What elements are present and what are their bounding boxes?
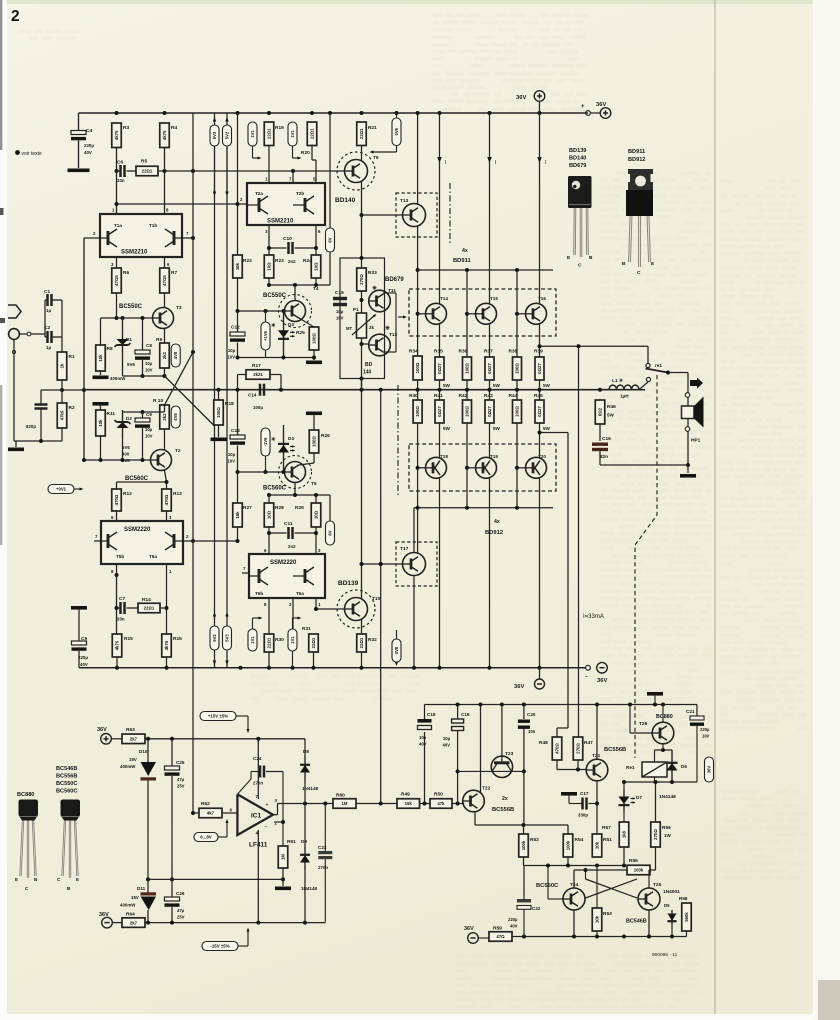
transistor T21 BC556B [586,759,608,781]
svg-text:R35: R35 [434,349,443,355]
svg-text:R29: R29 [295,505,304,511]
svg-text:+: + [266,803,269,809]
svg-text:BD911: BD911 [453,258,472,264]
svg-text:2k: 2k [369,325,374,330]
node 1V1 d [288,629,297,651]
svg-text:270Ω: 270Ω [576,743,581,754]
resistor R29 [315,495,317,503]
node 0V6 top [395,111,399,115]
svg-text:100p: 100p [253,405,263,410]
pin 7 [182,237,193,239]
svg-text:47µ: 47µ [177,777,185,782]
resistor R62 [199,808,222,818]
svg-text:C26: C26 [176,891,185,896]
wire top rail relay section [425,704,698,706]
resistor R15 [112,634,122,657]
resistor R17 bridge [237,375,239,390]
svg-text:140: 140 [363,370,372,376]
wire C18 to divider [424,732,426,804]
svg-text:SSM2220: SSM2220 [124,527,151,533]
svg-text:R9: R9 [156,337,162,343]
capacitor C16 [592,443,608,446]
wire T5 collector node [294,483,296,496]
svg-text:400mW: 400mW [120,764,136,769]
wire rail b [226,113,228,668]
pin 3 [116,257,118,268]
svg-text:16k: 16k [235,262,240,270]
capacitor C4 [78,113,80,131]
pin 6 [164,257,166,268]
svg-text:10k: 10k [595,915,600,923]
wire T26 emitter [662,744,664,750]
wire feedback riser [380,564,382,804]
wire collector rail 3 [538,111,542,115]
svg-text:D6: D6 [681,764,687,769]
capacitor C24 [237,779,251,794]
svg-text:✳: ✳ [385,325,390,332]
svg-text:R20: R20 [301,150,310,156]
wire collector rail 1 [438,111,442,115]
resistor R58 [682,903,692,931]
svg-text:5W: 5W [543,383,551,388]
svg-text:22Ω1: 22Ω1 [142,169,153,174]
svg-text:C18: C18 [427,712,436,717]
svg-text:6Ω2: 6Ω2 [598,407,603,416]
pin 8 [268,598,270,634]
LED D4 [283,425,285,472]
capacitor C10 [269,247,287,249]
svg-text:C23: C23 [318,845,327,850]
svg-text:10Ω: 10Ω [314,262,319,271]
wire T22 emitter [480,705,482,794]
op-amp pair IC SSM2220 T6 [249,554,325,598]
svg-text:BC560C: BC560C [56,789,77,795]
svg-text:270Ω: 270Ω [359,274,364,285]
wire T13 emitter [417,226,419,270]
resistor R12 [112,489,122,511]
svg-text:L1 ✳: L1 ✳ [612,378,624,384]
wire pin1 node [116,171,118,214]
transistor T16 [526,303,547,324]
wire L1 to relay contact [639,382,648,390]
svg-text:R27: R27 [243,505,252,511]
resistor R40 [413,400,422,423]
svg-text:2n2: 2n2 [288,544,296,549]
svg-text:4V8: 4V8 [173,413,178,421]
svg-text:0Ω27: 0Ω27 [537,406,542,417]
ground top relay [647,692,663,696]
svg-text:R5: R5 [141,159,147,165]
resistor R32 [361,620,363,634]
svg-text:T20: T20 [538,454,546,459]
capacitor C2 [45,336,48,338]
wire T21 emitter [596,781,598,834]
svg-text:R3: R3 [123,125,129,131]
wire crossover upper [165,376,215,426]
node 1V1 c [248,629,257,651]
resistor R27 [237,472,239,503]
boundary dash-dot b [397,385,399,497]
wire crossover lower [165,352,194,405]
svg-text:R4: R4 [171,125,177,131]
svg-text:1V1: 1V1 [250,636,255,644]
svg-text:1N4001: 1N4001 [663,889,680,895]
svg-text:36V: 36V [97,727,107,733]
svg-text:10V: 10V [336,316,344,321]
svg-text:+15V ±5%: +15V ±5% [208,714,228,719]
svg-text:0Ω27: 0Ω27 [437,363,442,374]
svg-text:R37: R37 [484,349,493,355]
ground above C17 [561,792,577,796]
wire lower emitters [439,390,441,400]
pin 2 [238,203,248,205]
svg-text:5W: 5W [607,413,615,418]
svg-text:22Ω1: 22Ω1 [144,606,155,611]
svg-text:T26: T26 [639,721,648,727]
resistor R16 [166,608,168,634]
terminal + open [586,111,591,116]
svg-text:SSM2210: SSM2210 [267,219,294,225]
svg-text:R61: R61 [287,839,296,845]
svg-text:400mW: 400mW [120,903,136,908]
resistor R13 [162,489,172,511]
resistor R10 [160,405,170,429]
svg-text:36V: 36V [707,766,712,774]
svg-text:T16: T16 [538,296,546,301]
svg-text:MT: MT [346,326,352,331]
svg-text:47Ω5: 47Ω5 [162,275,167,286]
svg-text:D7: D7 [636,795,642,800]
wire T10 emitter up [361,379,363,599]
svg-text:6...8V: 6...8V [200,835,212,840]
wire lower collectors [439,478,441,668]
resistor R36 [463,357,472,380]
ground input [8,448,24,452]
svg-text:2k2: 2k2 [162,413,167,421]
svg-text:36V: 36V [597,678,607,684]
svg-text:10µ: 10µ [145,427,153,432]
capacitor C23 [324,804,326,852]
svg-text:40V: 40V [84,150,92,155]
wire R4 to pin8 [164,148,166,215]
resistor R23 [264,255,274,278]
svg-text:0Ω27: 0Ω27 [537,363,542,374]
svg-text:+1V6: +1V6 [263,330,268,341]
transistor T17 [396,542,437,586]
svg-text:22Ω1: 22Ω1 [359,128,364,139]
wire lower base rails [389,389,391,391]
svg-text:40V: 40V [510,924,518,929]
wire +15V rail [145,738,305,740]
zener D2 [122,412,124,460]
svg-text:T21: T21 [592,753,601,759]
svg-text:D3: D3 [288,322,294,327]
svg-text:15V: 15V [131,895,139,900]
wire R55 to R56 [655,847,657,870]
pin 8 [116,564,118,575]
resistor R64 [112,922,122,924]
svg-text:470Ω: 470Ω [114,494,119,505]
svg-text:C11: C11 [284,521,293,527]
wire -15V rail [145,922,325,924]
diode D8 [304,739,306,756]
svg-text:5V3: 5V3 [225,634,230,642]
svg-text:R44: R44 [509,393,518,399]
svg-text:4k75: 4k75 [114,130,119,140]
svg-text:R6: R6 [123,270,129,276]
svg-text:T5b: T5b [116,554,124,559]
transistor T25 BC546B [638,888,660,910]
svg-text:5W: 5W [543,426,551,431]
svg-text:10µ: 10µ [336,309,344,314]
flip-flop cross wiring [586,879,638,898]
wire T15 base [466,270,468,357]
svg-text:T2b: T2b [296,191,304,196]
capacitor C15 [333,297,347,300]
wire 6V node lower [329,495,331,521]
svg-text:R2: R2 [69,405,75,411]
svg-text:15k: 15k [405,801,413,806]
svg-text:BD: BD [365,362,373,368]
svg-text:C24: C24 [253,756,262,761]
svg-text:47k: 47k [437,801,445,806]
page fold line [714,0,716,1014]
wire T24 emitter [573,910,575,937]
svg-text:–: – [265,824,268,830]
transistor T22 [463,790,485,812]
svg-text:BD912: BD912 [628,157,645,163]
wire T17 emitter [413,575,415,667]
svg-text:10µ: 10µ [228,348,236,353]
svg-text:10Ω: 10Ω [314,510,319,519]
svg-text:C12: C12 [231,325,240,331]
capacitor C25 [171,739,173,766]
svg-text:re1: re1 [655,363,662,368]
output dashed box upper [409,289,556,336]
svg-text:36V: 36V [516,95,526,101]
svg-text:R8: R8 [107,346,113,352]
svg-text:100Ω: 100Ω [312,333,317,344]
resistor R21 [360,111,364,115]
svg-text:0Ω27: 0Ω27 [437,406,442,417]
svg-text:16k: 16k [235,511,240,519]
svg-text:10k: 10k [595,841,600,849]
svg-text:100Ω: 100Ω [465,406,470,417]
resistor R26 [309,430,319,453]
relay dashed link [635,375,657,758]
svg-text:R41: R41 [434,393,443,399]
svg-text:5W: 5W [443,383,451,388]
svg-text:6V: 6V [328,530,333,535]
svg-text:R17: R17 [252,363,261,369]
svg-text:820p: 820p [26,424,36,429]
svg-text:D11: D11 [137,886,146,891]
boundary dash-dot a [449,183,451,245]
svg-text:100k: 100k [521,840,526,850]
pin 7 [242,572,249,574]
svg-text:T1a: T1a [114,223,122,228]
wire T9 to T13 base [362,214,403,216]
resistor R42 [463,400,472,423]
svg-text:I=33mA: I=33mA [583,614,604,620]
resistor R57 [619,822,629,847]
svg-text:C: C [578,263,582,269]
wire T3 base line [101,317,153,319]
transistor T13 [396,193,437,237]
svg-text:BC546B: BC546B [56,766,77,772]
svg-text:22Ω1: 22Ω1 [311,637,316,648]
svg-text:C20: C20 [527,712,536,717]
svg-text:47µ: 47µ [177,908,185,913]
svg-text:T9: T9 [373,155,379,161]
svg-text:T6a: T6a [296,591,304,596]
svg-text:10k: 10k [98,354,103,362]
capacitor C17 [569,803,582,805]
svg-text:BD679: BD679 [569,163,586,169]
svg-text:1N4148: 1N4148 [659,794,676,800]
svg-text:22Ω1: 22Ω1 [267,128,272,139]
svg-text:1k: 1k [60,363,65,368]
resistor R28 [268,495,270,503]
capacitor C1 [45,299,48,301]
wire T4 base line [238,310,285,312]
package TO-220 [628,169,653,190]
svg-text:T6b: T6b [255,591,263,596]
svg-text:47k5: 47k5 [60,410,65,420]
transistor T2 BC560C [151,450,172,471]
wire T24 base [548,898,563,900]
input arrow symbol [8,305,21,318]
svg-text:25V: 25V [177,915,185,920]
svg-text:4k75: 4k75 [164,640,169,650]
pin 3 [268,225,270,255]
wire T11 T12 right [383,292,396,294]
wire collector rail 2 [488,111,492,115]
node -36V bottom bus [79,667,560,669]
resistor R44 [513,400,522,423]
wire bottom rail relay section [512,936,687,938]
LED D7 [623,782,625,789]
svg-text:R36: R36 [459,349,468,355]
svg-text:R58: R58 [679,896,688,901]
svg-text:R31: R31 [302,626,311,632]
svg-text:T5a: T5a [149,554,157,559]
ground opamp [282,879,284,886]
svg-text:2k7: 2k7 [130,737,138,742]
svg-text:E: E [15,877,18,882]
svg-text:R56: R56 [662,825,671,831]
ground mid upper [313,358,315,361]
wire T4 emitter [299,318,314,327]
transistor T10 BD139 driver [337,590,375,628]
LED D3 [283,311,285,358]
svg-text:✳: ✳ [372,285,377,292]
svg-text:BC880: BC880 [17,792,34,798]
svg-text:270n: 270n [253,781,263,786]
package TO-92 a [19,800,39,821]
svg-text:R1: R1 [69,354,75,360]
resistor R41 [435,400,444,423]
speaker HP1 [687,373,689,466]
svg-text:BD139: BD139 [569,148,586,154]
svg-text:SSM2210: SSM2210 [121,250,148,256]
svg-text:BD139: BD139 [338,580,359,587]
svg-text:330p: 330p [578,813,588,818]
op-amp pair IC SSM2210 T1 [100,214,182,257]
svg-text:D8: D8 [303,749,309,754]
svg-text:220µ: 220µ [700,727,710,732]
svg-text:10Ω: 10Ω [267,262,272,271]
svg-text:10V: 10V [228,459,236,464]
wire R5 to T9 base [158,170,345,172]
svg-text:T18: T18 [440,454,448,459]
resistor R18 [218,390,220,400]
resistor R11 [93,402,109,406]
svg-text:40V: 40V [443,743,451,748]
wire servo ground line [148,878,283,880]
node 1V1 a [248,122,257,146]
resistor R48 [552,737,562,760]
svg-text:C14: C14 [248,393,257,398]
svg-text:5W: 5W [493,426,501,431]
svg-text:15V: 15V [129,757,137,762]
svg-text:33n: 33n [117,178,125,183]
svg-text:R25: R25 [296,330,305,336]
svg-text:R30: R30 [275,637,284,643]
svg-text:BC550C: BC550C [119,304,143,310]
input connector [9,329,20,340]
svg-text:R64: R64 [126,912,135,918]
ground below speaker [687,465,689,473]
svg-text:100Ω: 100Ω [515,363,520,374]
package TO-126 [568,176,592,208]
resistor R51 [592,834,602,857]
resistor R61 [278,846,288,868]
wire T25 collector [648,870,650,888]
svg-text:R11: R11 [107,411,116,417]
capacitor C5 [71,606,87,610]
svg-text:100Ω: 100Ω [216,407,221,418]
resistor R33 [357,268,367,291]
resistor R37 [485,357,494,380]
capacitor C22 [523,866,525,900]
scan mark a [0,208,4,215]
svg-text:R34: R34 [409,349,418,355]
svg-text:4k75: 4k75 [115,640,120,650]
svg-text:BD140: BD140 [569,156,586,162]
resistor R22 [233,255,243,278]
svg-text:R52: R52 [530,837,539,843]
bias box outline [340,258,385,379]
wire node line y204 [117,203,238,205]
svg-text:C9: C9 [146,412,152,417]
resistor R24 [311,255,321,278]
pin 2 [183,540,193,542]
node 1V1 b [288,122,297,146]
svg-text:C8: C8 [146,343,152,348]
svg-text:0V6: 0V6 [394,646,399,654]
terminal -36V [586,665,591,670]
wire pin2 feedback [282,772,284,847]
svg-text:1µ: 1µ [46,345,51,350]
svg-text:BD140: BD140 [335,197,356,204]
svg-text:C1: C1 [44,289,50,295]
node +36V top bus [79,112,589,114]
resistor R25 [309,327,319,350]
svg-text:1k8: 1k8 [622,830,627,838]
svg-text:R26: R26 [321,433,330,439]
transistor T23 [501,705,503,763]
